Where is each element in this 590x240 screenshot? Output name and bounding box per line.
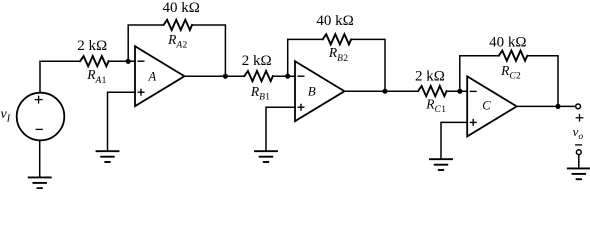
op-amp C bbox=[467, 76, 517, 136]
svg-text:40 kΩ: 40 kΩ bbox=[162, 0, 199, 16]
label plus vo bbox=[576, 115, 582, 121]
label minus vo bbox=[576, 144, 582, 146]
label 40 kOhm RB2 bbox=[316, 13, 353, 29]
svg-text:2 kΩ: 2 kΩ bbox=[77, 38, 107, 54]
svg-text:2 kΩ: 2 kΩ bbox=[415, 68, 445, 84]
wire A noninverting input to ground bbox=[108, 92, 136, 151]
label B bbox=[308, 83, 316, 98]
label 2 kOhm RA1 bbox=[77, 38, 107, 54]
svg-text:RA2: RA2 bbox=[167, 32, 187, 51]
label 40 kOhm RC2 bbox=[489, 34, 526, 50]
resistor RB2 zigzag bbox=[323, 34, 352, 44]
ground C bbox=[430, 159, 452, 170]
svg-text:RC1: RC1 bbox=[425, 97, 446, 116]
wire C noninverting input to ground bbox=[441, 122, 467, 159]
svg-text:RB2: RB2 bbox=[328, 45, 348, 64]
ground source bbox=[29, 177, 51, 188]
svg-text:RC2: RC2 bbox=[500, 63, 521, 82]
node junction A input bbox=[126, 59, 131, 64]
resistor RA1 zigzag bbox=[80, 56, 109, 66]
wire B output to RC1 bbox=[345, 90, 419, 92]
node junction B input bbox=[285, 74, 290, 79]
wire feedback C left+rail left bbox=[460, 56, 499, 91]
svg-text:2 kΩ: 2 kΩ bbox=[242, 53, 272, 69]
output terminal top bbox=[576, 104, 581, 109]
svg-text:RA1: RA1 bbox=[86, 67, 106, 86]
op-amp B bbox=[295, 61, 345, 121]
wire rail right + down to A output bbox=[192, 25, 225, 76]
wire source top to RA1 bbox=[40, 61, 80, 92]
resistor RC1 zigzag bbox=[418, 86, 447, 96]
output terminal bottom bbox=[576, 150, 581, 155]
label RA2 bbox=[167, 32, 187, 51]
node junction A output bbox=[223, 74, 228, 79]
label C bbox=[482, 99, 491, 113]
resistor RA2 zigzag bbox=[164, 20, 193, 30]
label RC2 bbox=[500, 63, 521, 82]
wire source bottom to ground bbox=[39, 140, 41, 177]
wire terminal bottom to ground bbox=[578, 155, 580, 169]
label RA1 bbox=[86, 67, 106, 86]
svg-text:40 kΩ: 40 kΩ bbox=[316, 13, 353, 29]
wire B noninverting input to ground bbox=[266, 107, 295, 151]
ground B bbox=[255, 151, 277, 162]
node junction B output bbox=[382, 89, 387, 94]
wire feedback B left+rail left bbox=[288, 39, 323, 76]
svg-text:vo: vo bbox=[573, 124, 584, 142]
voltage source vI bbox=[17, 93, 65, 141]
label A bbox=[147, 69, 156, 83]
resistor RB1 zigzag bbox=[244, 71, 273, 81]
wire RB1 to B inverting input bbox=[273, 75, 295, 77]
label RC1 bbox=[425, 97, 446, 116]
wire RC1 to C inverting input bbox=[447, 90, 468, 92]
label 2 kOhm RC1 bbox=[415, 68, 445, 84]
ground A bbox=[97, 151, 119, 162]
wire RA1 to A inverting input bbox=[109, 60, 136, 62]
label vI bbox=[1, 107, 11, 125]
svg-text:vI: vI bbox=[1, 107, 11, 125]
svg-text:40 kΩ: 40 kΩ bbox=[489, 34, 526, 50]
op-amp A bbox=[135, 46, 185, 106]
label 40 kOhm RA2 bbox=[162, 0, 199, 16]
wire A output to RB1 bbox=[185, 75, 245, 77]
ground output bbox=[568, 168, 590, 179]
node junction C input bbox=[457, 89, 462, 94]
label RB2 bbox=[328, 45, 348, 64]
svg-text:A: A bbox=[147, 69, 156, 83]
label 2 kOhm RB1 bbox=[242, 53, 272, 69]
svg-text:C: C bbox=[482, 99, 491, 113]
wire rail right + down to B output bbox=[351, 39, 385, 91]
node junction C output bbox=[555, 104, 560, 109]
label vo bbox=[573, 124, 584, 142]
wire feedback A left+rail left bbox=[128, 25, 163, 61]
svg-text:B: B bbox=[308, 83, 316, 98]
svg-text:RB1: RB1 bbox=[250, 84, 270, 103]
wire C output to terminal bbox=[517, 105, 576, 107]
wire rail right + down to C output bbox=[527, 56, 558, 107]
resistor RC2 zigzag bbox=[499, 51, 528, 61]
label RB1 bbox=[250, 84, 270, 103]
